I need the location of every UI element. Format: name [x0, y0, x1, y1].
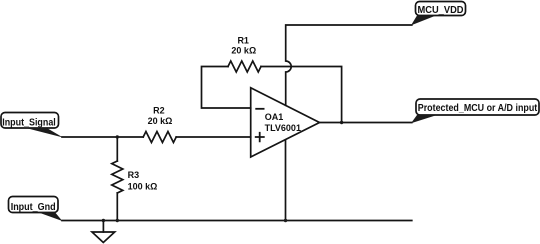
- resistor R3: [112, 161, 123, 193]
- wire R3 top: [116, 137, 118, 161]
- svg-text:OA1: OA1: [265, 112, 284, 122]
- node junction Input_Signal/R3: [116, 135, 119, 138]
- svg-text:TLV6001: TLV6001: [265, 123, 301, 133]
- node R3/ground rail junction: [116, 219, 119, 222]
- svg-text:100 kΩ: 100 kΩ: [128, 181, 158, 191]
- svg-text:20 kΩ: 20 kΩ: [148, 116, 173, 126]
- svg-text:R2: R2: [153, 105, 165, 115]
- op-amp non-inverting input plus sign: [255, 132, 265, 142]
- svg-text:Protected_MCU or A/D input: Protected_MCU or A/D input: [418, 102, 538, 114]
- resistor R2: [143, 132, 176, 143]
- wire Input_Signal to R2: [62, 136, 143, 138]
- svg-text:MCU_VDD: MCU_VDD: [418, 4, 464, 16]
- resistor R1: [228, 61, 261, 72]
- wire op-amp output: [320, 122, 412, 124]
- node feedback/output junction: [340, 121, 343, 124]
- wire MCU_VDD to op-amp V+ (with hop over feedback wire): [286, 25, 412, 105]
- node ground symbol junction: [102, 219, 105, 222]
- wire op-amp inverting input: [202, 67, 251, 109]
- wire R3 bottom to ground rail: [116, 193, 118, 221]
- svg-text:R3: R3: [128, 170, 140, 180]
- net label Input_Gnd: [9, 197, 63, 222]
- wire R1 to feedback node: [261, 67, 342, 123]
- net label Input_Signal: [1, 113, 63, 138]
- svg-text:20 kΩ: 20 kΩ: [231, 46, 256, 56]
- wire op-amp V- to ground rail: [285, 140, 287, 221]
- svg-text:Input_Gnd: Input_Gnd: [11, 201, 56, 213]
- node op-amp V-/ground rail junction: [284, 219, 287, 222]
- op-amp inverting input minus sign: [255, 108, 264, 110]
- svg-text:R1: R1: [237, 36, 249, 46]
- ground: [92, 221, 115, 243]
- svg-text:Input_Signal: Input_Signal: [2, 117, 56, 129]
- wire ground rail: [62, 220, 412, 222]
- op-amp OA1 TLV6001: [251, 88, 320, 157]
- net label MCU_VDD: [411, 2, 466, 26]
- wire R2 to op-amp non-inverting input: [176, 136, 251, 138]
- net label Protected_MCU or A/D input: [411, 99, 539, 123]
